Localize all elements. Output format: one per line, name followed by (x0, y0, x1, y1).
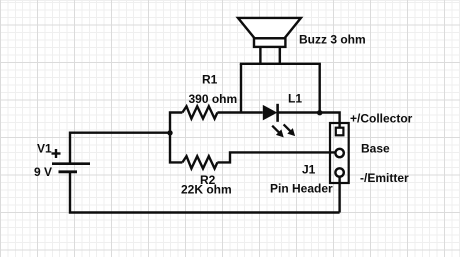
node A junction (167, 130, 172, 135)
svg-text:R1: R1 (202, 73, 218, 87)
wire emitter pin to bottom (338, 177, 340, 213)
wire speaker terminal right (279, 47, 281, 64)
pin header pin 3 round pad (335, 168, 343, 176)
LED L1 cathode bar (276, 104, 279, 122)
wire speaker left leg down (240, 64, 242, 113)
svg-text:J1: J1 (302, 163, 316, 177)
pin header pin 1 square pad (336, 128, 344, 136)
pin header pin 2 round pad (335, 149, 343, 157)
battery V1 positive plate (52, 162, 90, 165)
battery V1 plus sign (52, 149, 61, 158)
wire node B to header pin 1 (320, 113, 340, 128)
wire node A up to R1 (170, 113, 182, 135)
svg-text:Pin Header: Pin Header (270, 182, 333, 196)
speaker LS cone (238, 18, 301, 38)
svg-text:-/Emitter: -/Emitter (360, 171, 409, 185)
speaker LS body (254, 38, 285, 47)
svg-text:390 ohm: 390 ohm (189, 92, 238, 106)
LED arrow 2 (284, 124, 296, 136)
wire bottom return (70, 172, 340, 213)
pin header J1 body (330, 123, 349, 183)
svg-text:22K ohm: 22K ohm (181, 183, 232, 197)
svg-text:V1: V1 (37, 142, 52, 156)
wire node A down to R2 (170, 131, 182, 162)
wire R1 to LED anode (217, 111, 262, 113)
resistor R2 (182, 156, 217, 168)
svg-text:Buzz 3 ohm: Buzz 3 ohm (299, 33, 366, 47)
LED L1 triangle (263, 105, 278, 121)
wire battery positive to node A (70, 133, 170, 163)
wire R2 to base pin (217, 152, 335, 162)
battery V1 negative plate (59, 170, 78, 173)
LED arrow 1 (272, 126, 284, 138)
wire speaker box top (240, 63, 321, 65)
wire speaker terminal left (259, 47, 261, 64)
resistor R1 (182, 106, 217, 118)
svg-text:Base: Base (361, 141, 390, 155)
wire LED cathode to node B (278, 111, 320, 113)
wire speaker right leg down (319, 64, 321, 113)
node B junction (317, 110, 322, 115)
svg-text:9 V: 9 V (34, 165, 52, 179)
svg-text:+/Collector: +/Collector (350, 112, 413, 126)
svg-text:L1: L1 (288, 92, 302, 106)
